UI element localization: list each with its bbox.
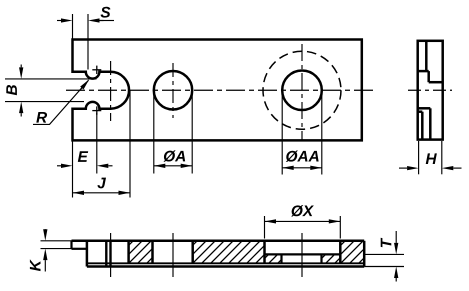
dim H extension lines (418, 141, 420, 174)
side view step V3 (429, 108, 432, 139)
hatch recess left band (215, 254, 323, 263)
section tongue bottom (72, 248, 87, 250)
dim T extension lines (364, 253, 404, 255)
hatch right block (278, 241, 418, 263)
section hole AA left wall (280, 254, 282, 263)
dim ØA line (154, 165, 192, 167)
label ØAA (286, 150, 319, 161)
section hole A centerline (172, 233, 174, 277)
dim ØA right arrow (180, 165, 182, 167)
dim T upper arrow (395, 231, 397, 243)
dim J extension line (129, 91, 131, 198)
section hole AA right wall (320, 254, 322, 263)
section recess X left wall (263, 241, 266, 263)
section top edge (72, 240, 365, 243)
dim ØAA extension lines (281, 95, 283, 175)
dim J line (73, 192, 131, 194)
section recess X floor (265, 253, 341, 255)
hatch recess right band (272, 254, 380, 263)
dim ØX line (265, 220, 341, 222)
dim ØAA right arrow (309, 167, 311, 169)
dim B extension lines (5, 78, 97, 80)
section recess X right wall (339, 241, 342, 263)
dim ØX left arrow (275, 220, 277, 222)
label E (78, 151, 88, 162)
hole AA (282, 70, 322, 110)
dim ØX right arrow (328, 220, 330, 222)
side view step V2 (427, 71, 430, 82)
dim ØAA line (282, 167, 322, 169)
section step at slot end (86, 241, 89, 267)
section wall in keyhole (105, 241, 107, 267)
label H (426, 153, 437, 164)
hatch A-to-recess (130, 241, 324, 263)
dashed circle X (recess) (263, 51, 341, 129)
dim S left arrow (57, 20, 61, 22)
leader R (33, 80, 89, 124)
dim S right arrow (100, 20, 104, 22)
dim E extension line (96, 113, 98, 174)
section keyhole right wall (127, 241, 130, 263)
dim ØA left arrow (164, 165, 166, 167)
label B (6, 85, 17, 95)
dim E left arrow (57, 165, 61, 167)
dim T lower arrow (395, 278, 397, 282)
label J (97, 178, 106, 189)
dim H left arrow (399, 167, 407, 169)
dim S extension lines (72, 14, 74, 40)
label R (36, 112, 47, 123)
dim J right arrow (118, 192, 120, 194)
section tongue tip (70, 241, 72, 249)
dim S right arrow tail (99, 20, 114, 22)
dim H right arrow (453, 167, 461, 169)
dim K upper arrow (44, 228, 46, 230)
hole AA vertical centerline (301, 44, 303, 142)
dim ØX extension lines (264, 216, 266, 239)
label ØX (291, 205, 314, 216)
main horizontal centerline (66, 89, 376, 91)
section outer bottom edge (87, 265, 364, 268)
hole A (154, 71, 192, 109)
side view centerline (408, 89, 452, 91)
dim J left arrow (83, 192, 85, 194)
dim K extension lines (41, 240, 72, 242)
side view step V4 (421, 112, 424, 140)
front view: plate outline with keyhole slot (73, 40, 362, 141)
section hole A right wall (191, 241, 194, 263)
section right edge (363, 241, 366, 267)
keyhole vertical centerline (110, 61, 112, 121)
dim E/J left extension (plate edge extended) (72, 140, 74, 197)
label T (381, 238, 392, 247)
side view slot edge V1 (425, 41, 428, 71)
hole A vertical centerline (172, 63, 174, 118)
center mark lower notch (92, 110, 101, 112)
dim B lower arrow (20, 113, 22, 116)
dim ØAA left arrow (293, 167, 295, 169)
label ØA (163, 150, 185, 161)
dim ØA extension lines (153, 95, 155, 174)
section inner bottom line (87, 262, 364, 264)
label S (101, 7, 111, 18)
side view step H2 (429, 81, 443, 84)
side view slot edge H1 (418, 70, 429, 73)
section hole AA centerline (301, 233, 303, 277)
dim E right arrow (108, 165, 112, 167)
section keyhole centerline (110, 233, 112, 277)
dim K lower arrow (44, 260, 46, 271)
dim B upper arrow (20, 65, 22, 68)
center mark upper notch (92, 69, 101, 71)
leader R arrowhead (80, 88, 82, 91)
section wall in keyhole 2 (109, 241, 111, 267)
section hole A left wall (151, 241, 154, 263)
hatch keyhole-to-A (66, 241, 206, 263)
side view step H4 (418, 110, 423, 113)
side view slot edge H3 (418, 107, 431, 110)
side view outline (418, 41, 443, 140)
label K (30, 259, 41, 271)
